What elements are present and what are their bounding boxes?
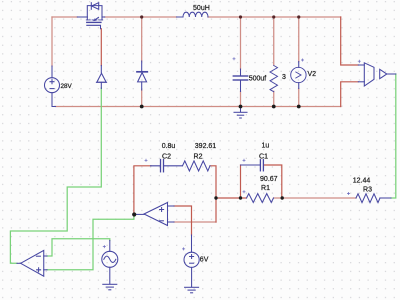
svg-text:12.44: 12.44 [353,177,371,184]
svg-text:C2: C2 [162,153,171,160]
capacitor C3 500uf [233,69,247,92]
svg-text:28V: 28V [61,83,73,90]
svg-text:R3: R3 [363,186,372,193]
wire opamp plus lead to 6V [174,206,192,235]
resistor R2 [183,161,211,171]
svg-text:C1: C1 [259,153,268,160]
wires red [52,17,356,222]
capacitor C1 leads [241,164,261,166]
resistor R3 [356,194,391,203]
wire C3 top stub [240,17,242,69]
wire R2 to node A [210,166,216,222]
ground under V4 [103,284,117,290]
wire comparator output to R3 [391,74,396,198]
wire R4 top stub [273,17,275,65]
node C1 right [281,196,284,199]
svg-text:90.67: 90.67 [260,176,278,183]
wire C1 left vertical [240,165,242,198]
svg-text:1u: 1u [262,143,270,150]
wire R4 bottom stub [273,91,275,106]
wire comparator lower feed [341,82,359,107]
node top rail V2 [297,15,300,18]
op-amp U3 (bottom left) [17,250,47,276]
wire C2 feed [134,166,151,213]
source V1 28V [45,66,60,107]
wire comparator upper feed [341,17,359,65]
comparator U1 output buffer [380,69,396,78]
ground under V3 [185,287,199,293]
wire C3 bottom stub [240,92,242,107]
svg-text:392.61: 392.61 [195,143,217,150]
comparator U1 body [358,63,374,86]
wire R1 right lead to R3 [274,197,357,199]
svg-text:6V: 6V [200,257,209,264]
source V4 sine [102,241,118,285]
node top rail R4 [272,15,275,18]
wire left drop to V1 [51,17,53,66]
transistor Q1 MOSFET [77,3,104,29]
node A [214,196,217,199]
capacitor C2 leads [151,165,183,167]
wire node A to node B [216,197,241,199]
wire D2 bottom stub [141,90,143,107]
source V2 [291,62,306,89]
wire opamp minus lead [174,221,216,223]
svg-text:R2: R2 [194,153,203,160]
svg-text:V2: V2 [308,71,317,78]
source V3 6V [184,235,199,287]
node top rail C3 [239,15,242,18]
wire opamp3 plus to opamp2 output [47,215,134,270]
wire D1 anode drop [10,88,101,263]
wire top rail mid [105,16,177,18]
svg-text:500uf: 500uf [249,76,267,83]
wires green [10,74,395,270]
ground under C3 [234,107,247,119]
wire top rail right [208,16,341,18]
wire bottom rail [56,106,341,108]
capacitor C2 plates [161,160,164,172]
junction dots [140,15,300,18]
node opamp2 output [132,212,136,216]
wire V2 bottom stub [298,89,300,107]
node bottom rail R4 [272,105,276,109]
wire opamp3 minus feedback to sine [47,239,110,256]
node bottom rail V2 [297,105,301,109]
op-amp U2 (middle) [134,203,174,226]
resistor R4 value 3 [270,66,278,92]
pin plus markers [103,57,361,250]
inductor L1 50uH [177,12,209,17]
wire gate drop to D1 [100,29,102,66]
wire V2 top stub [298,17,300,62]
wire top rail left [52,16,77,18]
svg-text:R1: R1 [261,185,270,192]
resistor R1 [247,194,274,203]
svg-text:3: 3 [282,74,286,81]
wire D2 top stub [141,17,143,61]
wire R1 left lead [241,197,247,199]
capacitor C1 plates [260,160,263,171]
node top rail D2 [140,15,143,18]
node B [239,196,242,199]
wire C1 right vertical [265,165,282,198]
diode D2 [137,61,147,90]
node bottom rail D2 [140,105,144,109]
node bottom rail C3 [239,105,243,109]
svg-text:50uH: 50uH [193,5,210,12]
diode D1 [96,66,106,89]
svg-text:0.8u: 0.8u [162,143,176,150]
